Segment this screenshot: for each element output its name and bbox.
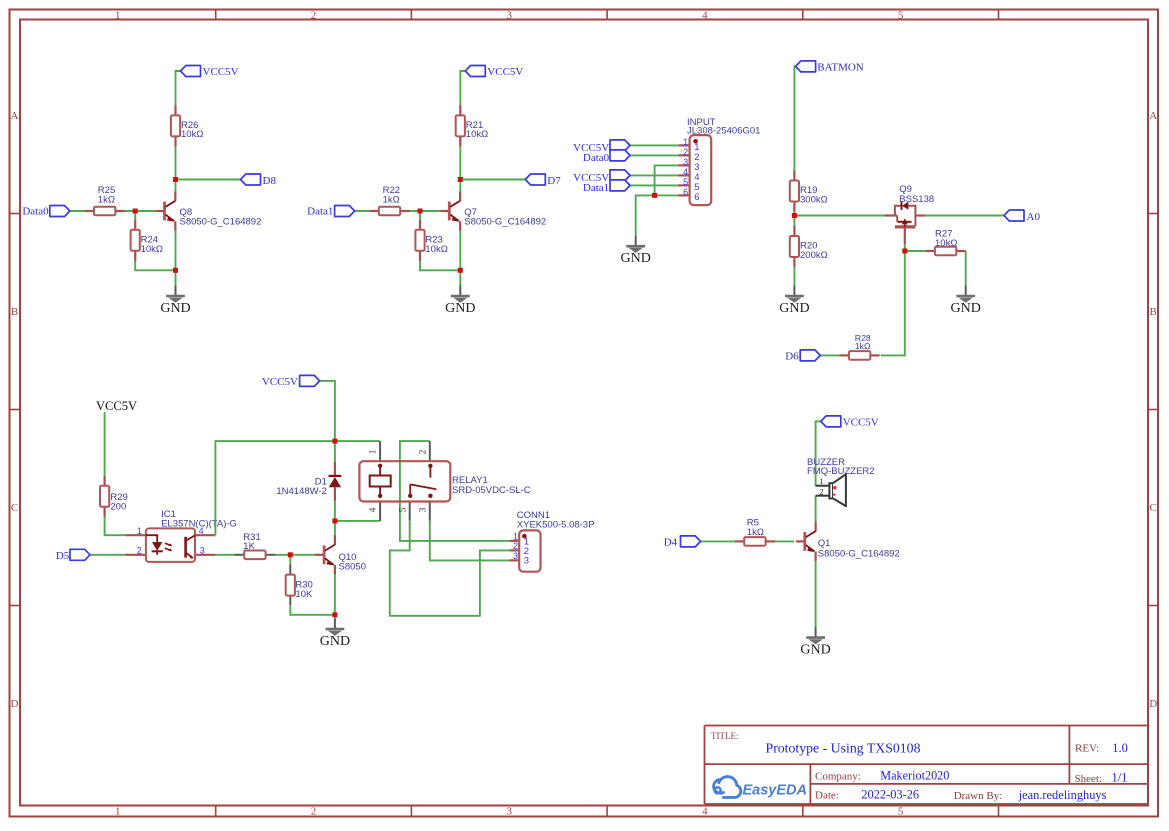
svg-text:6: 6 — [694, 192, 699, 203]
svg-text:D: D — [1149, 698, 1157, 710]
svg-text:C: C — [1150, 502, 1157, 514]
svg-text:GND: GND — [621, 251, 651, 266]
svg-text:3: 3 — [506, 9, 512, 21]
svg-text:5: 5 — [683, 177, 688, 187]
svg-text:SRD-05VDC-SL-C: SRD-05VDC-SL-C — [452, 485, 531, 496]
svg-text:D7: D7 — [547, 175, 561, 187]
svg-text:1kΩ: 1kΩ — [855, 341, 871, 351]
svg-text:2: 2 — [513, 541, 518, 551]
svg-text:10kΩ: 10kΩ — [141, 244, 163, 255]
svg-text:Company:: Company: — [815, 771, 861, 783]
svg-text:4: 4 — [683, 167, 688, 177]
svg-text:1: 1 — [115, 805, 121, 817]
svg-text:300kΩ: 300kΩ — [800, 194, 828, 205]
svg-text:FMQ-BUZZER2: FMQ-BUZZER2 — [807, 466, 875, 477]
svg-text:TITLE:: TITLE: — [711, 731, 739, 741]
svg-text:GND: GND — [951, 301, 981, 316]
svg-text:1kΩ: 1kΩ — [747, 527, 764, 538]
svg-text:Drawn By:: Drawn By: — [954, 790, 1003, 802]
svg-text:VCC5V: VCC5V — [843, 416, 879, 428]
svg-text:VCC5V: VCC5V — [262, 376, 298, 388]
svg-text:5: 5 — [898, 9, 904, 21]
svg-text:1: 1 — [513, 531, 518, 541]
svg-text:A: A — [11, 110, 19, 122]
svg-text:200kΩ: 200kΩ — [800, 250, 828, 261]
svg-text:2022-03-26: 2022-03-26 — [861, 787, 919, 801]
svg-text:1: 1 — [683, 137, 688, 147]
svg-text:3: 3 — [506, 805, 512, 817]
svg-text:GND: GND — [320, 634, 350, 649]
svg-text:A0: A0 — [1027, 211, 1041, 223]
svg-text:10kΩ: 10kΩ — [466, 129, 488, 140]
svg-text:C: C — [11, 502, 18, 514]
svg-text:D6: D6 — [785, 350, 799, 362]
svg-text:VCC5V: VCC5V — [487, 66, 523, 78]
svg-text:4: 4 — [702, 805, 708, 817]
svg-text:D4: D4 — [664, 537, 678, 549]
svg-text:D5: D5 — [56, 550, 70, 562]
svg-text:S8050-G_C164892: S8050-G_C164892 — [180, 216, 262, 227]
svg-text:5: 5 — [398, 507, 408, 512]
svg-text:Data1: Data1 — [583, 182, 609, 194]
svg-text:2: 2 — [418, 449, 428, 454]
svg-text:JL308-25406G01: JL308-25406G01 — [687, 126, 760, 137]
svg-text:1: 1 — [819, 476, 823, 486]
svg-text:Data0: Data0 — [22, 206, 49, 218]
svg-text:GND: GND — [800, 643, 830, 658]
svg-text:2: 2 — [137, 545, 142, 555]
svg-text:3: 3 — [513, 551, 518, 561]
svg-text:1kΩ: 1kΩ — [383, 195, 400, 206]
svg-text:S8050: S8050 — [339, 561, 366, 572]
svg-text:2: 2 — [311, 9, 317, 21]
svg-text:1: 1 — [369, 449, 379, 454]
svg-text:jean.redelinghuys: jean.redelinghuys — [1018, 788, 1107, 802]
svg-text:Date:: Date: — [815, 790, 839, 802]
svg-text:GND: GND — [445, 301, 475, 316]
svg-text:Data1: Data1 — [307, 206, 333, 218]
svg-text:D8: D8 — [263, 175, 277, 187]
svg-text:BSS138: BSS138 — [899, 194, 934, 205]
svg-text:1K: 1K — [243, 541, 255, 552]
svg-text:GND: GND — [160, 301, 190, 316]
svg-text:10kΩ: 10kΩ — [425, 244, 447, 255]
svg-text:4: 4 — [702, 9, 708, 21]
svg-text:2: 2 — [819, 486, 823, 496]
svg-text:3: 3 — [200, 545, 205, 555]
svg-text:6: 6 — [683, 187, 688, 197]
svg-text:1: 1 — [137, 526, 142, 536]
svg-text:1/1: 1/1 — [1112, 771, 1128, 785]
svg-text:D: D — [11, 698, 19, 710]
svg-text:GND: GND — [779, 301, 809, 316]
svg-text:VCC5V: VCC5V — [203, 66, 239, 78]
svg-text:Sheet:: Sheet: — [1075, 773, 1103, 785]
svg-text:2: 2 — [683, 147, 688, 157]
svg-text:5: 5 — [898, 805, 904, 817]
svg-text:10kΩ: 10kΩ — [181, 129, 203, 140]
svg-text:BATMON: BATMON — [817, 61, 864, 73]
svg-text:1kΩ: 1kΩ — [98, 195, 115, 206]
svg-text:Makeriot2020: Makeriot2020 — [880, 768, 949, 782]
svg-text:S8050-G_C164892: S8050-G_C164892 — [464, 216, 546, 227]
svg-text:1N4148W-2: 1N4148W-2 — [276, 486, 327, 497]
svg-text:REV:: REV: — [1075, 743, 1099, 755]
svg-text:1: 1 — [115, 9, 121, 21]
svg-text:1.0: 1.0 — [1112, 741, 1128, 755]
svg-text:3: 3 — [683, 157, 688, 167]
svg-text:VCC5V: VCC5V — [96, 399, 137, 413]
svg-text:A: A — [1149, 110, 1157, 122]
svg-text:EasyEDA: EasyEDA — [743, 783, 807, 799]
svg-text:200: 200 — [110, 501, 126, 512]
svg-text:XYEK500-5.08-3P: XYEK500-5.08-3P — [517, 519, 595, 530]
svg-text:4: 4 — [369, 507, 379, 512]
svg-text:Prototype - Using TXS0108: Prototype - Using TXS0108 — [766, 741, 921, 756]
svg-text:10kΩ: 10kΩ — [935, 238, 957, 249]
svg-text:10K: 10K — [295, 589, 313, 600]
svg-text:B: B — [11, 306, 18, 318]
svg-text:B: B — [1150, 306, 1157, 318]
svg-text:3: 3 — [418, 507, 428, 512]
svg-text:3: 3 — [524, 555, 529, 566]
svg-text:EL357N(C)(TA)-G: EL357N(C)(TA)-G — [161, 518, 237, 529]
svg-text:2: 2 — [311, 805, 317, 817]
svg-text:Data0: Data0 — [583, 152, 610, 164]
svg-text:S8050-G_C164892: S8050-G_C164892 — [818, 548, 900, 559]
